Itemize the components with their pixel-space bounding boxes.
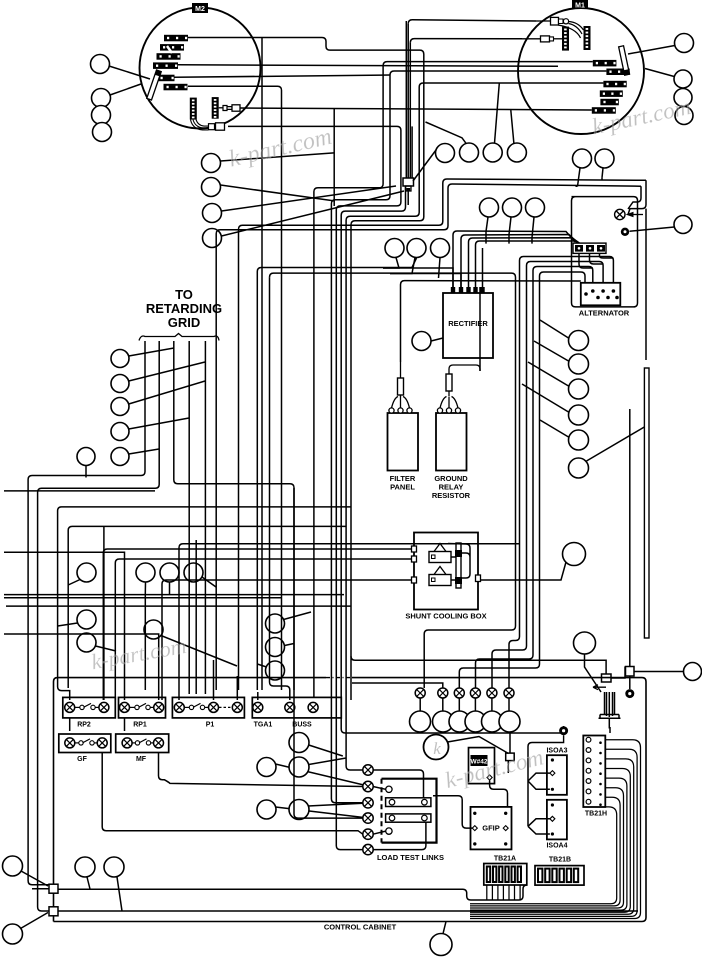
lead O3 — [458, 698, 460, 711]
lead L1 — [284, 612, 312, 620]
balloon G2 — [503, 198, 522, 217]
lead C4 — [511, 110, 514, 143]
filter fuse — [398, 378, 404, 395]
terminal bar M2-1 — [164, 35, 188, 42]
balloon K3 — [77, 633, 96, 652]
label M1 — [572, 0, 588, 9]
wire MF drop2 — [144, 594, 146, 690]
balloon A3 — [92, 106, 111, 125]
wire h507 — [58, 507, 351, 700]
lead F1 — [630, 227, 675, 231]
link wires — [373, 770, 426, 850]
wire encl right2 — [628, 186, 641, 209]
balloon L3 — [266, 661, 285, 680]
lead N1 — [309, 745, 343, 756]
BUSS bolts — [285, 702, 295, 712]
lead O6 — [508, 698, 510, 711]
svg-text:GF: GF — [77, 756, 87, 763]
balloon N3 — [289, 757, 309, 777]
wire v262 long — [261, 38, 263, 691]
wire h733 — [341, 700, 563, 733]
wire alt feed4 — [459, 272, 585, 688]
TB21H terminals — [586, 737, 591, 742]
lead I4 — [522, 384, 569, 412]
pointer stick M2 — [147, 70, 161, 100]
balloon I3 — [569, 379, 589, 399]
balloon A2 — [92, 89, 111, 108]
wire grid v5 — [204, 341, 206, 694]
wire bolt158 — [4, 634, 159, 700]
svg-text:M1: M1 — [575, 3, 585, 10]
wire L1 top — [188, 38, 424, 701]
shunt terminal right — [476, 575, 481, 582]
TGA1-BUSS box — [252, 697, 341, 718]
balloon J1 — [111, 350, 129, 368]
filter terminals — [389, 408, 394, 413]
wire h594 — [4, 594, 344, 596]
SHUNT COOLING BOX outer — [414, 533, 478, 610]
balloon H1 — [385, 239, 404, 258]
svg-text:MF: MF — [136, 756, 147, 763]
lead N2 — [276, 764, 369, 786]
lead K4 — [144, 582, 146, 594]
ISOA4 box — [547, 800, 567, 840]
svg-text:SHUNT COOLING BOX: SHUNT COOLING BOX — [405, 612, 486, 621]
svg-text:P1: P1 — [206, 722, 215, 729]
terminal bar M1-2 — [606, 69, 629, 76]
balloon I5 — [569, 430, 589, 450]
MF box — [116, 734, 169, 753]
svg-text:RP1: RP1 — [133, 722, 147, 729]
ALTERNATOR box — [581, 283, 621, 306]
lead Q — [585, 654, 602, 692]
junction square 888 — [49, 884, 58, 893]
RP2 bolts — [65, 702, 75, 712]
lead E2 — [602, 168, 603, 178]
balloon H4 (left of rectifier) — [412, 332, 431, 351]
wire L7 M2plug2 — [228, 126, 401, 849]
wire strip risers — [579, 253, 613, 268]
balloon N2 — [257, 758, 276, 777]
slash mark M2 — [167, 46, 172, 53]
TB21B strip — [535, 866, 584, 886]
wire L5 M1bar3 — [346, 83, 603, 770]
lead I3 — [528, 362, 569, 386]
wire rect top h — [405, 280, 581, 282]
lead B1 — [221, 153, 335, 161]
balloon G1 — [480, 198, 499, 217]
lead K6 — [202, 577, 216, 587]
balloon B3 — [203, 204, 222, 223]
svg-text:RP2: RP2 — [77, 722, 91, 729]
bolt at 629-694 — [625, 689, 634, 698]
plug J2 in M2 — [196, 120, 208, 127]
lead J6 — [85, 466, 87, 478]
wire v196 — [195, 540, 197, 694]
svg-text:ISOA3: ISOA3 — [546, 748, 567, 755]
wire sq510 drops — [508, 733, 510, 773]
lead B4 — [222, 191, 405, 236]
square terminal 606 — [602, 674, 612, 682]
balloon P big — [563, 543, 586, 566]
lead J5 — [129, 449, 159, 454]
wire h490 — [4, 490, 155, 492]
wire vertical channel c — [411, 126, 413, 178]
plug P1b in M1 — [522, 38, 540, 40]
symbol dot — [621, 228, 629, 236]
wire v334 upper — [333, 109, 335, 206]
wire rect riser4 — [476, 241, 584, 287]
lead H2 — [390, 258, 415, 274]
inspection circle M2 — [140, 8, 261, 129]
lead I1 — [540, 320, 569, 338]
wire rect riser2 — [461, 235, 578, 288]
wire v257 — [256, 272, 258, 691]
lead C1 — [413, 150, 436, 181]
balloon E2 — [595, 149, 614, 168]
link pin up — [386, 786, 392, 792]
terminal bar M1-1 — [593, 60, 617, 67]
svg-text:TO: TO — [175, 287, 193, 302]
lead H3 — [439, 258, 441, 279]
wire vertical channel d — [405, 21, 407, 178]
wire bolt124 — [4, 552, 125, 700]
balloon K6 — [184, 563, 203, 582]
lead O4 — [474, 698, 476, 711]
lead M2b — [21, 913, 49, 929]
bolt at 563-731 — [559, 726, 568, 735]
svg-text:ISOA4: ISOA4 — [546, 843, 567, 850]
wire below connector — [407, 191, 409, 205]
svg-text:RECTIFIER: RECTIFIER — [448, 319, 488, 328]
lead N5 — [308, 803, 368, 806]
wire grid v1 — [28, 341, 145, 889]
wire ground riser — [479, 287, 481, 371]
FILTER PANEL box — [388, 413, 419, 471]
junction square 911 — [49, 907, 58, 916]
GF bolts — [65, 738, 75, 748]
lead K7 — [161, 636, 237, 667]
balloon C3 — [483, 143, 502, 162]
svg-text:ALTERNATOR: ALTERNATOR — [579, 309, 630, 318]
TB21H box — [583, 736, 605, 808]
svg-text:RETARDING: RETARDING — [146, 301, 222, 316]
balloon M2b — [3, 924, 23, 944]
wire bolt443 — [352, 683, 443, 688]
svg-text:CONTROL CABINET: CONTROL CABINET — [324, 923, 397, 932]
LTL box — [382, 779, 437, 843]
lead P — [478, 562, 567, 580]
wire strip feeds — [486, 232, 532, 244]
lead R — [634, 671, 684, 673]
terminal bar M1-6 — [592, 107, 616, 114]
balloon M4 — [104, 857, 124, 877]
GFIP box — [471, 807, 512, 850]
shunt relay 2 — [429, 575, 451, 586]
wire L3 M2bar5 — [174, 75, 390, 77]
wire bolt104 — [103, 526, 105, 700]
GF box — [59, 734, 111, 753]
wire bolt290 — [293, 488, 295, 690]
wire bolt237 — [236, 676, 238, 700]
ISO fan 3 — [528, 773, 550, 789]
terminal bar M2-5 — [158, 75, 175, 82]
wire L8 connector-left — [341, 186, 405, 700]
wire GF drop — [159, 752, 363, 787]
balloon J4 — [111, 423, 129, 441]
wire grid v3 — [174, 341, 294, 690]
connector X1 — [403, 178, 414, 186]
wire L3b M1bar2 — [331, 71, 606, 803]
TB21H wire bundle — [470, 740, 641, 919]
balloon K1 — [77, 563, 96, 582]
balloon N5 — [289, 800, 309, 820]
svg-text:BUSS: BUSS — [292, 722, 312, 729]
pointer stick M1 — [619, 46, 630, 75]
lead O5 — [491, 698, 493, 711]
svg-text:TB21A: TB21A — [494, 856, 516, 863]
arrow left — [593, 685, 606, 690]
wire h549 — [103, 549, 414, 700]
wire h225 from 443 — [239, 183, 443, 690]
slash mark M1 — [468, 99, 476, 105]
GFIP wire left — [433, 796, 472, 828]
ALTERNATOR enclosure — [572, 197, 638, 307]
W42 box — [469, 748, 495, 784]
ISOA3 box — [547, 755, 567, 795]
thick bar 647 — [644, 368, 649, 638]
lead L2 — [285, 644, 295, 646]
wire grid v2 — [38, 341, 160, 911]
ground relay terminals — [437, 408, 442, 413]
svg-text:TB21H: TB21H — [585, 811, 607, 818]
balloon N1 — [289, 733, 309, 753]
wire rect fan2 — [390, 274, 461, 288]
wire vertical channel a — [408, 20, 536, 24]
label M2 — [192, 3, 208, 13]
balloon S (bottom) — [430, 934, 452, 956]
ISO fan 4 — [528, 819, 550, 834]
RP1 bolts — [120, 702, 130, 712]
wire rect riser3 — [469, 238, 581, 287]
balloon I1 — [569, 331, 589, 351]
wire bottom 911 — [54, 910, 639, 912]
lead I2 — [534, 341, 569, 361]
sq terminal 510 — [506, 753, 515, 761]
balloon E1 — [573, 149, 592, 168]
lead M1b — [21, 871, 48, 886]
ISOA4 pins — [551, 803, 554, 806]
TB21H top wire — [609, 727, 611, 733]
balloon R (right edge) — [684, 663, 702, 681]
svg-text:RESISTOR: RESISTOR — [432, 491, 471, 500]
alternator pins — [591, 289, 595, 293]
GROUND RELAY box — [436, 413, 467, 471]
balloon O2 — [433, 711, 454, 732]
balloon D1 — [675, 34, 694, 53]
svg-text:TGA1: TGA1 — [254, 722, 273, 729]
lead B3 — [222, 186, 397, 211]
lead G1 — [486, 217, 488, 232]
balloon D3 — [674, 89, 692, 107]
lead M3 — [87, 877, 90, 889]
wire alt feed1 — [509, 257, 613, 689]
wire L4 M2bar6 — [188, 86, 282, 690]
lead G2 — [509, 217, 511, 235]
balloon J6 — [77, 448, 95, 466]
balloon L2 — [266, 638, 285, 657]
balloon G3 — [526, 198, 545, 217]
terminal bar M1-3 — [603, 81, 626, 88]
wire h543 — [179, 544, 520, 700]
lead B2 — [221, 185, 336, 201]
plug J1 in M2 — [219, 107, 223, 109]
wire bolt258 — [257, 692, 259, 700]
RP2 box — [63, 697, 116, 718]
wire RP drop1 — [70, 718, 125, 731]
P1 bolts — [174, 702, 184, 712]
balloon I4 — [569, 405, 589, 425]
GFIP pins — [473, 812, 476, 815]
balloon B2 — [202, 178, 221, 197]
wire MF drop — [102, 752, 363, 834]
terminal bar M1-5 — [600, 99, 618, 106]
wire h559 — [115, 559, 414, 700]
rectifier terminals — [451, 287, 455, 293]
plug P1a in M1 — [536, 20, 550, 22]
link bar 1 — [386, 798, 431, 807]
wire vertical channel b — [410, 39, 522, 43]
wire v294-bolt4 — [294, 690, 363, 818]
grid brace — [139, 334, 219, 341]
wire h186 enclosure — [448, 184, 641, 188]
lead I5 — [540, 420, 569, 437]
balloon K4 — [136, 563, 155, 582]
lead A2 — [110, 84, 141, 95]
balloon C1 — [436, 144, 455, 163]
wire h180 enclosure — [443, 179, 646, 183]
balloon Q — [574, 632, 596, 654]
TB21A strip — [484, 864, 527, 886]
wire vertical channel a2 — [407, 24, 409, 178]
lead L3 — [257, 664, 266, 667]
lead A1 — [109, 66, 150, 79]
wire bottom jog — [54, 885, 528, 900]
balloon K7 — [144, 620, 163, 639]
CONTROL CABINET border — [54, 678, 647, 922]
wire sq-h — [611, 667, 625, 679]
lead K5 — [169, 582, 171, 594]
lead D2 — [645, 69, 674, 77]
wire h660 — [351, 656, 606, 674]
lead K2 — [58, 623, 78, 626]
W42 wires — [490, 781, 508, 807]
balloon I6 — [569, 458, 589, 478]
balloon C2 — [460, 143, 479, 162]
link pin down — [386, 828, 392, 834]
lead J3 — [129, 381, 205, 404]
balloon B1 — [202, 154, 221, 173]
wire h230 from 448 — [216, 188, 448, 690]
jumper wires M1 — [569, 22, 584, 31]
svg-text:M2: M2 — [195, 6, 205, 13]
lead C3 — [495, 83, 500, 143]
terminal bar M2-3 — [157, 53, 181, 60]
wire rect fan1 — [383, 268, 453, 287]
terminal bar M1-4 — [600, 90, 623, 97]
lead E1 — [578, 168, 581, 186]
bolt row mid — [415, 688, 425, 698]
shunt terminals left — [412, 546, 417, 552]
wire v269 — [270, 277, 290, 700]
lead N3 — [309, 758, 346, 765]
wire v629 — [629, 409, 631, 689]
wire alt v5 — [424, 273, 515, 688]
svg-text:GRID: GRID — [168, 315, 201, 330]
balloon O5 — [482, 711, 503, 732]
wire enclosure outer — [576, 178, 603, 187]
wire grid v4 — [188, 341, 190, 694]
connector strip M2-left — [190, 98, 197, 120]
wire L2 M2bar4 — [178, 65, 558, 67]
balloon M1b — [3, 856, 23, 876]
balloon I2 — [569, 354, 589, 374]
balloon M3 — [75, 857, 95, 877]
terminal bar M2-4 — [153, 62, 178, 69]
balloon H3 — [431, 239, 450, 258]
wire h606 — [6, 605, 351, 607]
wire vertical channel b2 — [409, 43, 411, 178]
cabinet fold dash — [326, 677, 352, 679]
lead D1 — [628, 46, 675, 55]
balloon C4 — [507, 143, 526, 162]
lead S — [443, 922, 446, 934]
lead O1 — [419, 698, 421, 711]
balloon O4 — [465, 711, 486, 732]
balloon H2 — [407, 239, 426, 258]
inspection circle M1 — [518, 8, 644, 134]
square terminal 629 — [626, 667, 635, 677]
wire h273 — [270, 273, 512, 277]
wire rect riser1 — [453, 231, 575, 287]
lead M4 — [117, 877, 122, 911]
wire h580 — [162, 580, 414, 700]
balloon K5 — [160, 563, 179, 582]
lead J4 — [129, 418, 189, 429]
shunt relay 1 — [429, 552, 451, 563]
balloon L1 — [266, 614, 285, 633]
balloon O6 — [499, 711, 520, 732]
link bar 2 — [386, 814, 431, 822]
lead N4 — [276, 807, 369, 818]
shunt wires — [448, 544, 470, 581]
P1 box — [172, 697, 244, 718]
lead C2 — [426, 122, 467, 143]
balloon D4 — [675, 107, 693, 125]
balloon J2 — [111, 375, 129, 393]
RP1 box — [119, 697, 166, 718]
lead H1 — [383, 258, 399, 269]
wire alt feed3 — [476, 267, 593, 689]
wire rect riser5 — [482, 248, 484, 287]
connector strip M1-right — [584, 26, 591, 50]
wire encl right down — [628, 180, 646, 214]
balloon F1 — [674, 216, 692, 234]
wire L2b M1bar1 — [314, 62, 593, 697]
svg-text:GFIP: GFIP — [482, 824, 500, 833]
lead G3 — [532, 217, 534, 238]
wire h263 — [257, 258, 416, 272]
